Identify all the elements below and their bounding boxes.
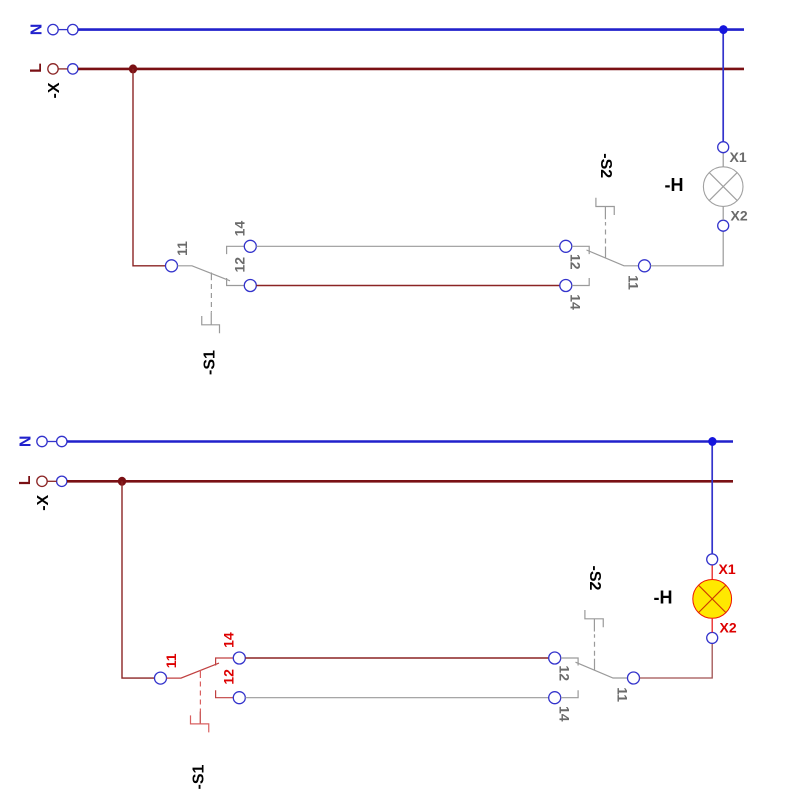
switch S2 contact 14 bracket xyxy=(572,278,589,286)
svg-text:12: 12 xyxy=(568,254,584,270)
terminal circle N b xyxy=(68,24,78,34)
svg-text:-H: -H xyxy=(665,175,684,195)
switch S1 contact 14 circle xyxy=(244,240,256,252)
wire lamp body to X2 (bottom, energized) xyxy=(711,619,713,633)
switch S1 actuator dashed link (bottom) xyxy=(199,682,201,712)
wire X1 to N bus (neutral branch, bottom) xyxy=(711,442,713,554)
switch S2 contact 12 circle (bottom) xyxy=(549,652,561,664)
terminal circle L b (bottom) xyxy=(57,476,67,486)
switch S1 contact 14 bracket xyxy=(227,246,245,254)
svg-text:-H: -H xyxy=(654,587,673,607)
svg-text:11: 11 xyxy=(615,687,631,702)
switch S2 actuator dashed link (bottom) xyxy=(594,634,596,656)
svg-text:-X: -X xyxy=(35,494,52,510)
wire lamp body to X1 (bottom, energized) xyxy=(711,565,713,579)
lamp H cross stroke b (bottom) xyxy=(699,585,726,612)
wire S1.12 to S2.14 (lower traveller, live) xyxy=(256,285,560,287)
junction dot on N bus (bottom) xyxy=(708,437,716,446)
wire S2.11 to lamp X2 (live, bottom) xyxy=(640,643,713,678)
switch S1 lever (position 12) xyxy=(178,266,231,281)
terminal circle N b (bottom) xyxy=(57,436,67,446)
lamp H terminal X2 circle xyxy=(718,220,729,231)
wire L bus xyxy=(78,68,744,71)
switch S2 actuator tick (bottom) xyxy=(594,659,596,671)
svg-text:14: 14 xyxy=(557,706,573,722)
switch S2 contact 14 bracket (bottom) xyxy=(561,690,578,698)
switch S1 actuator tick (bottom) xyxy=(199,670,201,678)
switch S2 actuator stem xyxy=(604,207,606,220)
lamp H terminal X2 circle (bottom) xyxy=(707,632,718,643)
switch S2 contact 12 bracket xyxy=(572,246,589,254)
svg-text:-S1: -S1 xyxy=(202,350,219,375)
svg-text:L: L xyxy=(17,475,34,485)
wire lamp body to X2 xyxy=(722,206,724,220)
switch S1 contact 12 bracket (bottom, active) xyxy=(216,690,234,698)
wire L bus (bottom) xyxy=(67,480,733,483)
switch S1 contact 14 circle (bottom) xyxy=(233,652,245,664)
switch S1 lever (position 14, actuated) xyxy=(167,663,220,678)
lamp H cross stroke a (bottom) xyxy=(699,585,726,612)
switch S2 pivot contact 11 circle (bottom) xyxy=(628,672,640,684)
junction dot on L bus (bottom) xyxy=(118,477,126,486)
junction dot on L bus xyxy=(129,64,137,73)
switch S1 contact 12 circle (bottom) xyxy=(233,692,245,704)
switch S2 actuator stem (bottom) xyxy=(593,619,595,632)
svg-text:12: 12 xyxy=(557,665,573,681)
svg-text:12: 12 xyxy=(232,257,248,273)
switch S2 actuator tick xyxy=(605,247,607,259)
wire N terminal link xyxy=(58,29,67,31)
wire N bus (bottom) xyxy=(67,440,733,443)
wire N bus xyxy=(78,28,744,31)
svg-text:-X: -X xyxy=(46,82,63,98)
svg-text:-S2: -S2 xyxy=(597,153,614,178)
switch S2 actuator dashed link xyxy=(605,222,607,244)
wire L drop to S1 (bottom) xyxy=(122,481,155,678)
wire N terminal link (bottom) xyxy=(47,441,56,443)
svg-text:N: N xyxy=(18,436,35,448)
svg-text:N: N xyxy=(29,24,46,36)
lamp H cross stroke b xyxy=(709,173,737,201)
switch S2 lever (position 12) xyxy=(587,250,639,266)
switch S1 manual actuator symbol (bottom) xyxy=(191,715,209,732)
wire L terminal link xyxy=(58,68,67,70)
switch S2 contact 12 circle xyxy=(560,240,572,252)
terminal circle N a xyxy=(48,24,58,34)
lamp H body circle (off) xyxy=(703,167,743,207)
svg-text:X1: X1 xyxy=(730,149,747,165)
wire S1.14 to S2.12 (upper traveller, live, bottom) xyxy=(245,657,548,659)
switch S1 contact 12 circle xyxy=(244,280,256,292)
switch S2 contact 14 circle (bottom) xyxy=(549,692,561,704)
svg-text:11: 11 xyxy=(163,653,179,668)
svg-text:14: 14 xyxy=(232,221,248,237)
switch S2 lever (position 12, bottom) xyxy=(576,662,628,678)
switch S1 contact 12 bracket xyxy=(227,278,245,286)
terminal circle L b xyxy=(68,64,78,74)
svg-text:L: L xyxy=(28,63,45,73)
wire L drop to S1 xyxy=(133,69,166,266)
junction dot on N bus xyxy=(719,25,727,34)
svg-text:X2: X2 xyxy=(731,208,748,224)
terminal circle L a xyxy=(48,64,58,74)
svg-text:X1: X1 xyxy=(719,561,736,577)
switch S1 pivot contact 11 circle (bottom) xyxy=(155,672,167,684)
svg-text:14: 14 xyxy=(221,632,237,648)
switch S1 manual actuator symbol xyxy=(202,316,220,333)
svg-text:X2: X2 xyxy=(720,620,737,636)
svg-text:14: 14 xyxy=(568,294,584,310)
switch S1 actuator stem (bottom) xyxy=(199,712,201,724)
lamp H body circle (on, lit yellow) xyxy=(693,580,732,619)
wire S1.12 to S2.14 (lower traveller, idle, bottom) xyxy=(245,697,548,699)
terminal circle N a (bottom) xyxy=(37,436,47,446)
wire S1.14 to S2.12 (upper traveller, idle) xyxy=(256,245,560,247)
svg-text:-S2: -S2 xyxy=(586,566,603,591)
switch S1 actuator dashed link xyxy=(210,284,212,312)
switch S1 contact 14 bracket (bottom, active) xyxy=(216,658,234,666)
switch S2 contact 12 bracket (bottom) xyxy=(561,658,578,666)
switch S1 actuator tick xyxy=(210,273,212,281)
switch S2 pivot contact 11 circle xyxy=(639,260,651,272)
svg-text:11: 11 xyxy=(626,275,642,290)
switch S2 contact 14 circle xyxy=(560,280,572,292)
switch S2 manual actuator symbol (bottom) xyxy=(585,610,603,627)
svg-text:12: 12 xyxy=(221,669,237,685)
wire X1 to N bus (neutral branch) xyxy=(722,30,724,142)
wire L terminal link (bottom) xyxy=(47,480,56,482)
wire S2.11 to lamp X2 (idle) xyxy=(651,231,724,266)
switch S1 actuator stem xyxy=(210,312,212,325)
lamp H terminal X1 circle (bottom) xyxy=(707,554,718,565)
switch S1 pivot contact 11 circle xyxy=(166,260,178,272)
terminal circle L a (bottom) xyxy=(37,476,47,486)
switch S2 manual actuator symbol xyxy=(596,198,614,215)
svg-text:11: 11 xyxy=(174,241,190,256)
svg-text:-S1: -S1 xyxy=(191,764,208,789)
lamp H terminal X1 circle xyxy=(718,142,729,153)
lamp H cross stroke a xyxy=(709,173,737,201)
wire lamp body to X1 xyxy=(722,153,724,167)
